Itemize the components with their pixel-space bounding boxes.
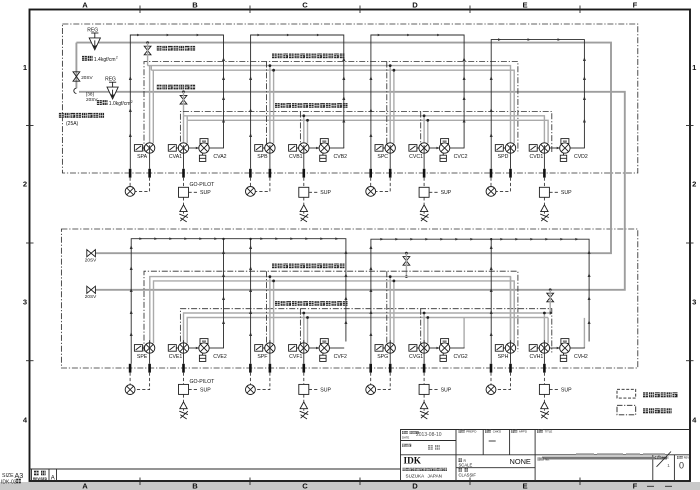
- wire: dashed drop to gauge (SPA): [129, 178, 131, 187]
- label wall air supply piping (25A): [59, 113, 104, 118]
- svg-text:SUP: SUP: [561, 387, 572, 393]
- svg-text:SPA: SPA: [137, 154, 148, 160]
- wire: dashed to SUP label (CVA1): [189, 191, 199, 193]
- wire: dashed drop to gauge (SPE): [129, 373, 131, 385]
- solenoid valve CVA1 (coil+body): [168, 145, 178, 152]
- wire: transfer pipe (upper group 4): gauge line up, across, down to CV2 riser: [491, 40, 584, 169]
- spring symbol (CVD1): [540, 214, 549, 222]
- wire: output below CVB1: [303, 145, 305, 169]
- svg-text:A: A: [82, 1, 88, 10]
- solenoid valve CVH1 (coil+body): [529, 345, 539, 352]
- wire: transfer pipe (upper group 1): gauge line up, across, down to CV2 riser: [130, 35, 223, 169]
- pilot supply box (CVH1): [539, 384, 549, 394]
- wire: CVB1 to CVB2: [309, 147, 319, 149]
- svg-text:CVG1: CVG1: [409, 354, 423, 360]
- svg-text:SPC: SPC: [377, 154, 388, 160]
- page margin band (bottom): [0, 482, 700, 490]
- grid tick (left border): [26, 242, 34, 244]
- solenoid valve CVE1 (coil+body): [168, 345, 178, 352]
- header cell CHK'D: [485, 430, 491, 433]
- wire: CVA1 to CVA2: [189, 147, 199, 149]
- manifold enclosure 1 (upper, dash-dot): [144, 62, 518, 152]
- wire: dashed drop to SUP box (CVF1): [303, 373, 305, 385]
- svg-text:CVB2: CVB2: [334, 154, 348, 160]
- svg-text:SIZE: SIZE: [2, 473, 14, 479]
- page corner dashes (bottom right): [647, 485, 654, 487]
- valve 20SV (lower line 2): [87, 286, 96, 293]
- junction ticks at panel frame (SPD): [490, 169, 493, 178]
- svg-text:SCALE: SCALE: [459, 462, 473, 467]
- junction ticks at panel frame (SPG): [369, 364, 372, 373]
- pilot supply box (CVG1): [419, 384, 429, 394]
- air actuator symbol (CVC1): [420, 205, 427, 212]
- svg-text:20SV: 20SV: [85, 258, 97, 263]
- svg-text:CVC2: CVC2: [454, 154, 468, 160]
- junction ticks at panel frame (SPF): [249, 364, 252, 373]
- title block outline: [401, 430, 691, 482]
- svg-text:20SV: 20SV: [85, 294, 97, 299]
- wire: gauge H line to transfer pipe 2: [490, 239, 492, 364]
- spring symbol (CVC1): [420, 214, 429, 222]
- wire: dashed to SUP label (CVG1): [429, 388, 439, 390]
- svg-text:TITLE: TITLE: [545, 430, 553, 434]
- flow arrows on lower gauge riser: [490, 245, 493, 249]
- wire: CVD1 to CVD2: [550, 147, 560, 149]
- solenoid valve SPA (coil+body): [134, 145, 144, 152]
- svg-text:C: C: [302, 482, 308, 490]
- header cell APP'D: [511, 430, 517, 433]
- wire: dashed below SUP box (CVF1): [303, 394, 305, 401]
- wire: outputs below SPE: [149, 340, 151, 364]
- wire: header bus 2b (upper): [187, 116, 548, 143]
- solenoid valve SPC (coil+body): [375, 145, 385, 152]
- label 3-port solenoid manifold (lower 1): [272, 264, 345, 269]
- wire: header bus 4 (lower): [184, 313, 551, 343]
- grid tick (top border): [579, 6, 581, 14]
- label 3-port solenoid manifold (upper 1): [272, 54, 345, 59]
- wire: output below CVE1: [183, 340, 185, 364]
- legend label field panel: [643, 408, 672, 413]
- valve 20SV (lower line 1): [87, 250, 96, 257]
- valve 20SV (riser): [73, 72, 80, 81]
- flow arrows on lower CV2 riser: [222, 250, 225, 254]
- wire: CV drop (lower group 2): [303, 313, 305, 343]
- header cell PREP'D: [459, 430, 465, 433]
- junction tick at panel frame (CVB1): [302, 169, 305, 178]
- label setting 1.0kgf/cm2: [97, 100, 108, 105]
- svg-text:SPD: SPD: [498, 154, 509, 160]
- wire: dashed drop to gauge (SPB): [249, 178, 251, 187]
- wire: output below CVH1: [543, 340, 545, 364]
- svg-text:CVG2: CVG2: [454, 354, 468, 360]
- header isolation valve (upper line 1): [146, 41, 149, 44]
- wire: dashed drop to SUP box (CVG1): [423, 373, 425, 385]
- wire: dashed below SUP box (CVG1): [423, 394, 425, 401]
- wire: outputs below SPH: [510, 340, 512, 364]
- junction ticks at panel frame (SPA): [129, 169, 132, 178]
- pressure gauge (SPD circuit): [486, 187, 496, 197]
- svg-text:2013-08-10: 2013-08-10: [416, 432, 442, 438]
- wire: CVH1 to CVH2: [550, 347, 560, 349]
- title block date cell: [402, 431, 408, 434]
- air actuator symbol (CVA1): [180, 205, 187, 212]
- grid tick (bottom border): [469, 478, 471, 486]
- solenoid valve SPB (coil+body): [255, 145, 265, 152]
- solenoid valve CVH2 (body+spring): [561, 339, 569, 344]
- wire: output below CVA1: [183, 145, 185, 169]
- svg-text:SUP: SUP: [441, 387, 452, 393]
- svg-text:1.4kgf/cm: 1.4kgf/cm: [94, 57, 116, 63]
- spring symbol (CVB1): [300, 214, 309, 222]
- wire: CVE2 riser to transfer pipe 1: [223, 239, 225, 348]
- wire: outputs below SPA: [149, 145, 151, 169]
- air actuator symbol (CVH1): [541, 402, 548, 409]
- manifold enclosure 2 (upper, dash-dot): [180, 112, 551, 153]
- wire: CV drop (upper group 3): [423, 116, 425, 143]
- svg-text:JAPAN: JAPAN: [428, 473, 442, 478]
- wire: CV drop (lower group 3): [423, 313, 425, 343]
- header isolation valve (upper line 2): [182, 90, 185, 93]
- svg-text:1: 1: [667, 463, 670, 468]
- solenoid valve CVF2 (body+spring): [320, 339, 328, 344]
- svg-text:SUP: SUP: [200, 190, 211, 196]
- wire: SP drop (lower group 2): [269, 277, 271, 344]
- wire: supply line 1 (1.4 kgf) to right side and down to lower line: [76, 43, 611, 254]
- svg-text:1.0kgf/cm: 1.0kgf/cm: [109, 101, 131, 107]
- junction tick at panel frame (CVF1): [302, 364, 305, 373]
- wire: header bus 1 (upper): [148, 66, 511, 144]
- grid tick (right border): [686, 360, 694, 362]
- air actuator symbol (CVG1): [420, 402, 427, 409]
- svg-text:0: 0: [679, 461, 684, 471]
- svg-text:REG: REG: [87, 27, 98, 33]
- spring symbol (CVA1): [179, 214, 188, 222]
- manifold enclosure 3 (lower, dash-dot): [144, 271, 518, 351]
- wire: dashed below SUP box (CVH1): [543, 394, 545, 401]
- panel frame (upper section, dash-dot): [62, 24, 637, 173]
- wire: CV2 riser lower part (upper group 4): [583, 144, 585, 149]
- wire: dashed below SUP box (CVE1): [183, 394, 185, 401]
- junction tick at panel frame (CVD1): [543, 169, 546, 178]
- svg-text:SUP: SUP: [320, 387, 331, 393]
- svg-text:1: 1: [658, 454, 661, 459]
- svg-text:REVISED: REVISED: [33, 477, 48, 481]
- wire: header bus 3b (lower): [154, 281, 515, 343]
- label setting 1.4kgf/cm2: [82, 56, 93, 61]
- manifold enclosure tap (upper group 2): [266, 62, 268, 152]
- pressure gauge (SPC circuit): [366, 187, 376, 197]
- solenoid valve CVG1 (coil+body): [409, 345, 419, 352]
- wire: outputs below SPD: [510, 145, 512, 169]
- flow arrows on lower gauge riser: [249, 245, 252, 249]
- svg-text:IDK: IDK: [404, 456, 422, 466]
- svg-text:NONE: NONE: [510, 457, 531, 466]
- svg-text:2: 2: [23, 180, 27, 189]
- svg-text:IDK-03: IDK-03: [1, 480, 17, 486]
- junction ticks at panel frame (SPB): [249, 169, 252, 178]
- revision cell: [677, 456, 683, 459]
- wire: CV2 riser lower part (upper group 3): [463, 144, 465, 149]
- junction tick at panel frame (CVA1): [182, 169, 185, 178]
- manifold enclosure tap (lower group 3): [386, 271, 388, 351]
- wire: header bus 3 (lower): [150, 277, 511, 344]
- solenoid valve SPH (coil+body): [495, 345, 505, 352]
- grid tick (top border): [359, 6, 361, 14]
- revision strip label: [34, 471, 46, 476]
- junction ticks at panel frame (SPC): [369, 169, 372, 178]
- wire: dashed drop to SUP box (CVE1): [183, 373, 185, 385]
- wire: CVG2 outlet: [450, 347, 465, 349]
- pilot supply box (CVC1): [419, 187, 429, 197]
- wire: CV drop (upper group 2): [303, 116, 305, 143]
- junction ticks at panel frame (SPE): [129, 364, 132, 373]
- wire: CVA2 outlet: [209, 147, 224, 149]
- wire: dashed to SUP label (CVD1): [549, 191, 559, 193]
- pipe cap (supply entry): [74, 88, 77, 93]
- wire: CV drop (lower group 4): [543, 313, 545, 343]
- svg-text:REV: REV: [684, 456, 690, 460]
- wire: header bus 1b (upper): [151, 66, 514, 144]
- header isolation valve (lower line 1): [405, 252, 408, 255]
- svg-text:SUP: SUP: [320, 190, 331, 196]
- wire: dashed to SUP label (CVB1): [309, 191, 319, 193]
- pilot supply box (CVD1): [539, 187, 549, 197]
- junction tick at panel frame (CVG1): [423, 364, 426, 373]
- wire: CVC2 outlet: [450, 147, 465, 149]
- svg-text:SUP: SUP: [561, 190, 572, 196]
- svg-text:20SV: 20SV: [86, 97, 98, 102]
- solenoid valve CVB2 (body+spring): [320, 139, 328, 144]
- title block dividers: [401, 454, 691, 456]
- pressure gauge (SPB circuit): [246, 187, 256, 197]
- manifold enclosure tap (upper group 3): [386, 62, 388, 152]
- wire: outputs below SPG: [389, 340, 391, 364]
- svg-text:B: B: [192, 482, 198, 490]
- wire: dashed drop to gauge (SPC): [370, 178, 372, 187]
- wire: dashed below SUP box (CVA1): [183, 197, 185, 204]
- flow arrows on lower CV2 riser: [588, 250, 591, 254]
- wire: CVF1 to CVF2: [309, 347, 319, 349]
- wire: SP drop (upper group 1): [149, 66, 151, 144]
- svg-text:CLASSIF: CLASSIF: [459, 472, 477, 477]
- wire: dashed to SUP label (CVC1): [429, 191, 439, 193]
- svg-text:CVD1: CVD1: [529, 154, 543, 160]
- solenoid valve SPE (coil+body): [134, 345, 144, 352]
- pressure gauge (SPG circuit): [366, 385, 376, 395]
- svg-text:E: E: [522, 482, 527, 490]
- wire: output below CVF1: [303, 340, 305, 364]
- svg-text:SUZUKA: SUZUKA: [406, 473, 426, 478]
- svg-text:SPF: SPF: [257, 354, 267, 360]
- wire: dashed drop to SUP box (CVD1): [543, 178, 545, 188]
- grid tick (right border): [686, 242, 694, 244]
- wire: CV2 return riser (lower group 3): [463, 318, 465, 348]
- svg-text:APP'D: APP'D: [519, 430, 527, 434]
- wire: output below CVD1: [543, 145, 545, 169]
- legend label manifold: [643, 392, 678, 397]
- solenoid valve CVF1 (coil+body): [289, 345, 299, 352]
- wire: CV2 riser lower part (upper group 1): [223, 144, 225, 149]
- wire: gauge F line to transfer pipe 1: [250, 239, 252, 364]
- grid tick (bottom border): [359, 478, 361, 486]
- svg-text:F: F: [633, 1, 638, 10]
- svg-text:A: A: [51, 476, 55, 482]
- svg-text:A: A: [82, 482, 88, 490]
- svg-text:3: 3: [692, 298, 696, 307]
- label 3-port solenoid manifold (upper 2): [275, 103, 348, 108]
- wire: dashed below SUP box (CVB1): [303, 197, 305, 204]
- wire: transfer pipe (upper group 2): gauge line up, across, down to CV2 riser: [251, 35, 344, 169]
- wire: transfer pipe 1 (lower): gauge E line, across, down to CVF2 riser: [131, 239, 346, 364]
- air actuator symbol (CVB1): [300, 205, 307, 212]
- wire: CVD2 outlet: [570, 147, 585, 149]
- wire: supply riser: [75, 43, 77, 89]
- wire: dashed drop to gauge (SPD): [490, 178, 492, 187]
- junction ticks at panel frame (SPH): [490, 364, 493, 373]
- drawing number cell: [538, 458, 544, 461]
- pilot supply box (CVA1): [179, 187, 189, 197]
- svg-text:CVF1: CVF1: [289, 354, 302, 360]
- svg-text:SPB: SPB: [257, 154, 268, 160]
- wire: dashed to SUP label (CVH1): [549, 388, 559, 390]
- svg-text:CVB1: CVB1: [289, 154, 303, 160]
- pressure gauge (SPA circuit): [125, 187, 135, 197]
- label 3-port solenoid manifold (lower 2): [275, 301, 348, 306]
- revision strip: [30, 468, 401, 470]
- manifold enclosure 4 (lower, dash-dot): [180, 309, 551, 353]
- classif cell: [459, 468, 462, 471]
- junction tick at panel frame (CVH1): [543, 364, 546, 373]
- wire: dashed below SUP box (CVC1): [423, 197, 425, 204]
- title block author cell: [402, 444, 411, 447]
- wire: dashed drop to SUP box (CVH1): [543, 373, 545, 385]
- wire: dashed drop to SUP box (CVB1): [303, 178, 305, 188]
- grid tick (top border): [249, 6, 251, 14]
- solenoid valve CVG2 (body+spring): [441, 339, 449, 344]
- svg-text:[38]: [38]: [86, 91, 94, 96]
- wire: transfer pipe (upper group 3): gauge line up, across, down to CV2 riser: [371, 35, 464, 169]
- spring symbol (CVG1): [420, 411, 429, 419]
- wire: CVE2 outlet: [209, 347, 224, 349]
- spring symbol (CVE1): [179, 411, 188, 419]
- wire: CV drop (upper group 1): [183, 116, 185, 143]
- wire: SP drop (upper group 3): [389, 66, 391, 144]
- svg-text:CVC1: CVC1: [409, 154, 423, 160]
- solenoid valve CVC2 (body+spring): [441, 139, 449, 144]
- svg-text:2: 2: [692, 180, 696, 189]
- wire: output below CVG1: [423, 340, 425, 364]
- wire: CVF2 outlet: [330, 347, 345, 349]
- label wall header (upper 2): [157, 85, 195, 90]
- svg-text:B: B: [192, 1, 198, 10]
- wire: SP drop (lower group 3): [389, 277, 391, 344]
- flow arrows on lower gauge riser: [369, 245, 372, 249]
- grid tick (bottom border): [139, 478, 141, 486]
- solenoid valve SPG (coil+body): [375, 345, 385, 352]
- flow arrows on lower CV2 riser: [344, 250, 347, 254]
- junction tick at panel frame (CVE1): [182, 364, 185, 373]
- solenoid valve SPF (coil+body): [255, 345, 265, 352]
- grid tick (right border): [686, 125, 694, 127]
- svg-text:GO-PILOT: GO-PILOT: [190, 182, 216, 188]
- grid tick (bottom border): [249, 478, 251, 486]
- svg-text:3: 3: [23, 298, 27, 307]
- pilot supply box (CVF1): [299, 384, 309, 394]
- svg-text:REG: REG: [105, 77, 116, 83]
- svg-text:(25A): (25A): [66, 121, 79, 127]
- svg-text:CVD2: CVD2: [574, 154, 588, 160]
- svg-text:D: D: [412, 1, 418, 10]
- solenoid valve CVD2 (body+spring): [561, 139, 569, 144]
- wire: header bus 4b (lower): [187, 318, 548, 344]
- wire: dashed to SUP label (CVE1): [189, 388, 199, 390]
- air actuator symbol (CVF1): [300, 402, 307, 409]
- wire: output below CVC1: [423, 145, 425, 169]
- svg-text:GO-PILOT: GO-PILOT: [190, 379, 216, 385]
- svg-text:CVH1: CVH1: [529, 354, 543, 360]
- spring symbol (CVH1): [540, 411, 549, 419]
- svg-text:2: 2: [131, 100, 133, 104]
- svg-text:SUP: SUP: [441, 190, 452, 196]
- svg-text:SPH: SPH: [498, 354, 509, 360]
- pressure gauge (SPE circuit): [125, 385, 135, 395]
- grid tick (left border): [26, 360, 34, 362]
- svg-text:CVE2: CVE2: [213, 354, 227, 360]
- pressure gauge (SPH circuit): [486, 385, 496, 395]
- manifold enclosure tap (lower group 2): [266, 271, 268, 351]
- svg-text:PREP'D: PREP'D: [466, 430, 476, 434]
- wire: CVG1 to CVG2: [429, 347, 439, 349]
- grid tick (bottom border): [579, 478, 581, 486]
- wire: dashed drop to SUP box (CVA1): [183, 178, 185, 188]
- svg-text:No.: No.: [545, 457, 550, 461]
- solenoid valve CVC1 (coil+body): [409, 145, 419, 152]
- legend symbol: manifold: [617, 389, 636, 398]
- svg-text:SPE: SPE: [137, 354, 148, 360]
- svg-text:C: C: [302, 1, 308, 10]
- svg-text:CVA2: CVA2: [213, 154, 226, 160]
- redacted title text: [576, 453, 665, 455]
- svg-text:SPG: SPG: [377, 354, 388, 360]
- wire: supply line 2 (1.0 kgf) to right side and down to lower line: [79, 92, 625, 290]
- wire: CVE1 to CVE2: [189, 347, 199, 349]
- svg-text:E: E: [522, 1, 527, 10]
- wire: CVC1 to CVC2: [429, 147, 439, 149]
- air actuator symbol (CVD1): [541, 205, 548, 212]
- page cell: [655, 456, 661, 459]
- wire: CVH2 outlet: [570, 347, 585, 349]
- grid tick (left border): [26, 125, 34, 127]
- svg-text:CVA1: CVA1: [169, 154, 182, 160]
- svg-text:CHK'D: CHK'D: [493, 430, 501, 434]
- svg-text:A3: A3: [15, 471, 24, 480]
- wire: header bus 2 (upper): [184, 116, 545, 143]
- solenoid valve SPD (coil+body): [495, 145, 505, 152]
- solenoid valve CVE2 (body+spring): [200, 339, 208, 344]
- svg-text:D: D: [412, 482, 418, 490]
- grid tick (top border): [139, 6, 141, 14]
- svg-text:CVF2: CVF2: [334, 354, 347, 360]
- wire: SP drop (upper group 2): [269, 66, 271, 144]
- wire: CVB2 outlet: [330, 147, 345, 149]
- grid tick (top border): [469, 6, 471, 14]
- wire: SP drop (lower group 4): [510, 277, 512, 344]
- solenoid valve CVA2 (body+spring): [200, 139, 208, 144]
- wire: CV2 return riser (lower group 4): [583, 318, 585, 348]
- wire: outputs below SPF: [269, 340, 271, 364]
- solenoid valve CVD1 (coil+body): [529, 145, 539, 152]
- wire: dashed drop to gauge (SPG): [370, 373, 372, 385]
